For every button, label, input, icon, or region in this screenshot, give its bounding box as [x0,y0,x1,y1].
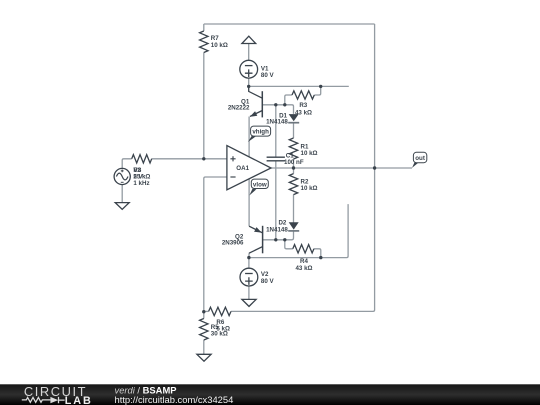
voltage source V3 sine [114,168,130,184]
label R8 overlapping V3 label [133,167,150,181]
transistor Q1 2N2222 [228,86,262,117]
svg-text:LAB: LAB [65,395,93,405]
resistor R8 [132,155,152,163]
wire Q1 base [262,104,285,106]
resistor R4 [293,245,314,272]
svg-text:R7: R7 [211,35,219,42]
wire V2 bottom to ground [248,286,250,299]
ground under V2 [242,299,256,306]
node junction C1 top on Q1 base [274,103,277,106]
supply arrow above V1 [242,36,256,43]
node junction R1/R2 on output wire [292,166,295,169]
node junction output to right rail (out net) [373,166,376,169]
svg-text:30 kΩ: 30 kΩ [211,330,228,337]
wire R5 top lead [203,312,205,319]
svg-text:43 kΩ: 43 kΩ [295,265,312,272]
wire R2 to D2 [293,195,295,224]
svg-text:80 V: 80 V [261,72,275,79]
wire Q2 collector to V2 node [248,253,250,257]
node junction V1+ / Q1 collector [247,85,250,88]
svg-text:2N2222: 2N2222 [228,105,250,112]
svg-text:R3: R3 [299,102,307,109]
footer logo resistor-diode glyph [22,397,51,402]
svg-text:1N4148: 1N4148 [266,119,288,126]
diode D2 1N4148 [266,220,299,234]
node junction C1 bottom on Q2 base [274,238,277,241]
wire C1 top lead [275,105,277,157]
wire right rail x=375 [231,24,375,311]
wire C1 bottom lead [275,161,277,240]
transistor Q2 2N3906 [222,226,263,254]
diode D1 1N4148 [266,113,299,126]
wire Q2 base [263,239,285,241]
svg-text:10 kΩ: 10 kΩ [211,42,228,49]
wire R4 left lead [285,240,293,249]
wire R2 top lead [293,168,295,174]
svg-text:vhigh: vhigh [252,129,269,136]
resistor R3 [292,91,314,117]
svg-text:100 nF: 100 nF [284,159,304,166]
resistor R2 [289,174,317,195]
node junction R5/R6 / op-amp - feedback [202,310,205,313]
wire op-amp output to out flag [271,167,412,169]
wire top rail out-net [204,23,375,25]
svg-text:D2: D2 [278,220,286,227]
wire D2 bottom elbow [285,231,294,240]
svg-text:2N3906: 2N3906 [222,239,244,246]
wire source bottom to ground [121,185,123,203]
voltage source V2 [240,268,275,286]
node junction Q2 collector / V2 top [247,256,250,259]
node junction R3 right to V1+ rail [319,85,322,88]
wire source to op-amp + input [122,159,227,169]
wire op-amp - input to bottom node [204,177,227,312]
wire R6 left lead [204,310,209,312]
ground under R5 [197,354,211,361]
ground under V3 [115,203,129,210]
wire R1 bottom lead [293,159,295,168]
svg-text:1N4148: 1N4148 [266,227,288,234]
svg-text:80 V: 80 V [261,278,275,285]
svg-text:10 kΩ: 10 kΩ [301,150,318,157]
wire R3 left lead [285,95,292,105]
label V3 [133,167,149,187]
wire V1 plus rail to stub end [249,85,349,87]
wire D1 to R1 [293,123,295,138]
wire V1 arrow stem [248,44,250,61]
capacitor C1 [267,153,304,166]
wire V1 bottom lead [248,78,250,86]
svg-text:vlow: vlow [253,181,267,188]
svg-text:1 kHz: 1 kHz [133,180,149,187]
wire R5 bottom to ground [203,340,205,354]
node junction R3/D1 on Q1 base [283,103,286,106]
node junction D2/R4 on Q2 base [283,238,286,241]
wire R4 right lead [314,249,321,258]
node junction op-amp + input [202,157,205,160]
resistor R5 [200,319,228,341]
flag vlow [249,179,268,195]
wire Q2 emitter from op-amp V- pin [248,179,250,226]
op-amp OA1 [227,146,271,190]
resistor R7 [200,31,228,53]
wire R7 bottom to +input node [203,53,205,159]
voltage source V1 [240,60,275,79]
wire V2 node to V2 top [248,258,250,269]
svg-text:10 kΩ: 10 kΩ [301,185,318,192]
flag out [412,152,427,168]
wire D1 top elbow [285,105,294,114]
node junction R4 right to V2 rail [319,256,322,259]
svg-text:out: out [415,155,425,162]
wire R3 right lead [314,86,320,95]
wire Q1 emitter to op-amp V+ pin [248,117,250,157]
svg-text:OA1: OA1 [236,165,249,172]
resistor R1 [289,138,317,159]
flag vhigh [248,126,271,142]
wire V2 top rail with stub [249,204,348,258]
wire left rail top lead to R7 [203,24,205,31]
resistor R6 [209,307,231,332]
svg-text:http://circuitlab.com/cx34254: http://circuitlab.com/cx34254 [115,394,234,405]
